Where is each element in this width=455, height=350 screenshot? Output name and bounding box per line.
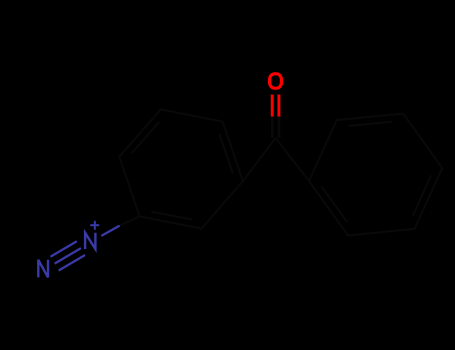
atom label N+ (inner diazonium nitrogen) bbox=[85, 233, 95, 249]
N#N triple bond line 3 (lower) bbox=[59, 255, 85, 271]
C-N single bond, blue nitrogen-side half bbox=[101, 226, 119, 236]
left benzene ring (diazonium-bearing aryl ring) bbox=[119, 109, 243, 228]
C=O double bond, red oxygen-side halves bbox=[272, 95, 279, 117]
C=O double bond, dark carbon-side halves bbox=[271, 115, 274, 139]
atom label N (terminal diazonium nitrogen) bbox=[38, 260, 48, 278]
aromatic double bond inner line, right ring top edge bbox=[349, 122, 392, 126]
N#N triple bond line 1 (upper) bbox=[51, 241, 77, 257]
aromatic double bond inner line, left ring right edge bbox=[220, 135, 233, 173]
plus charge sign on N+ bbox=[90, 221, 99, 230]
N#N triple bond line 2 (middle) bbox=[55, 248, 81, 264]
aromatic double bond inner line, left ring upper-left edge bbox=[132, 123, 159, 153]
right benzene ring (phenyl ring) bbox=[309, 114, 442, 236]
aromatic double bond inner line, left ring bottom edge bbox=[152, 212, 192, 220]
C-N single bond, dark carbon-side half bbox=[120, 216, 140, 225]
aromatic double bond inner line, right ring lower-left edge bbox=[322, 187, 347, 222]
bond: carbonyl C to right ring bbox=[276, 138, 310, 181]
atom label O (carbonyl oxygen) bbox=[270, 74, 282, 88]
aromatic double bond inner line, right ring lower-right edge bbox=[413, 176, 431, 215]
bond: carbonyl C to left ring bbox=[243, 138, 276, 181]
